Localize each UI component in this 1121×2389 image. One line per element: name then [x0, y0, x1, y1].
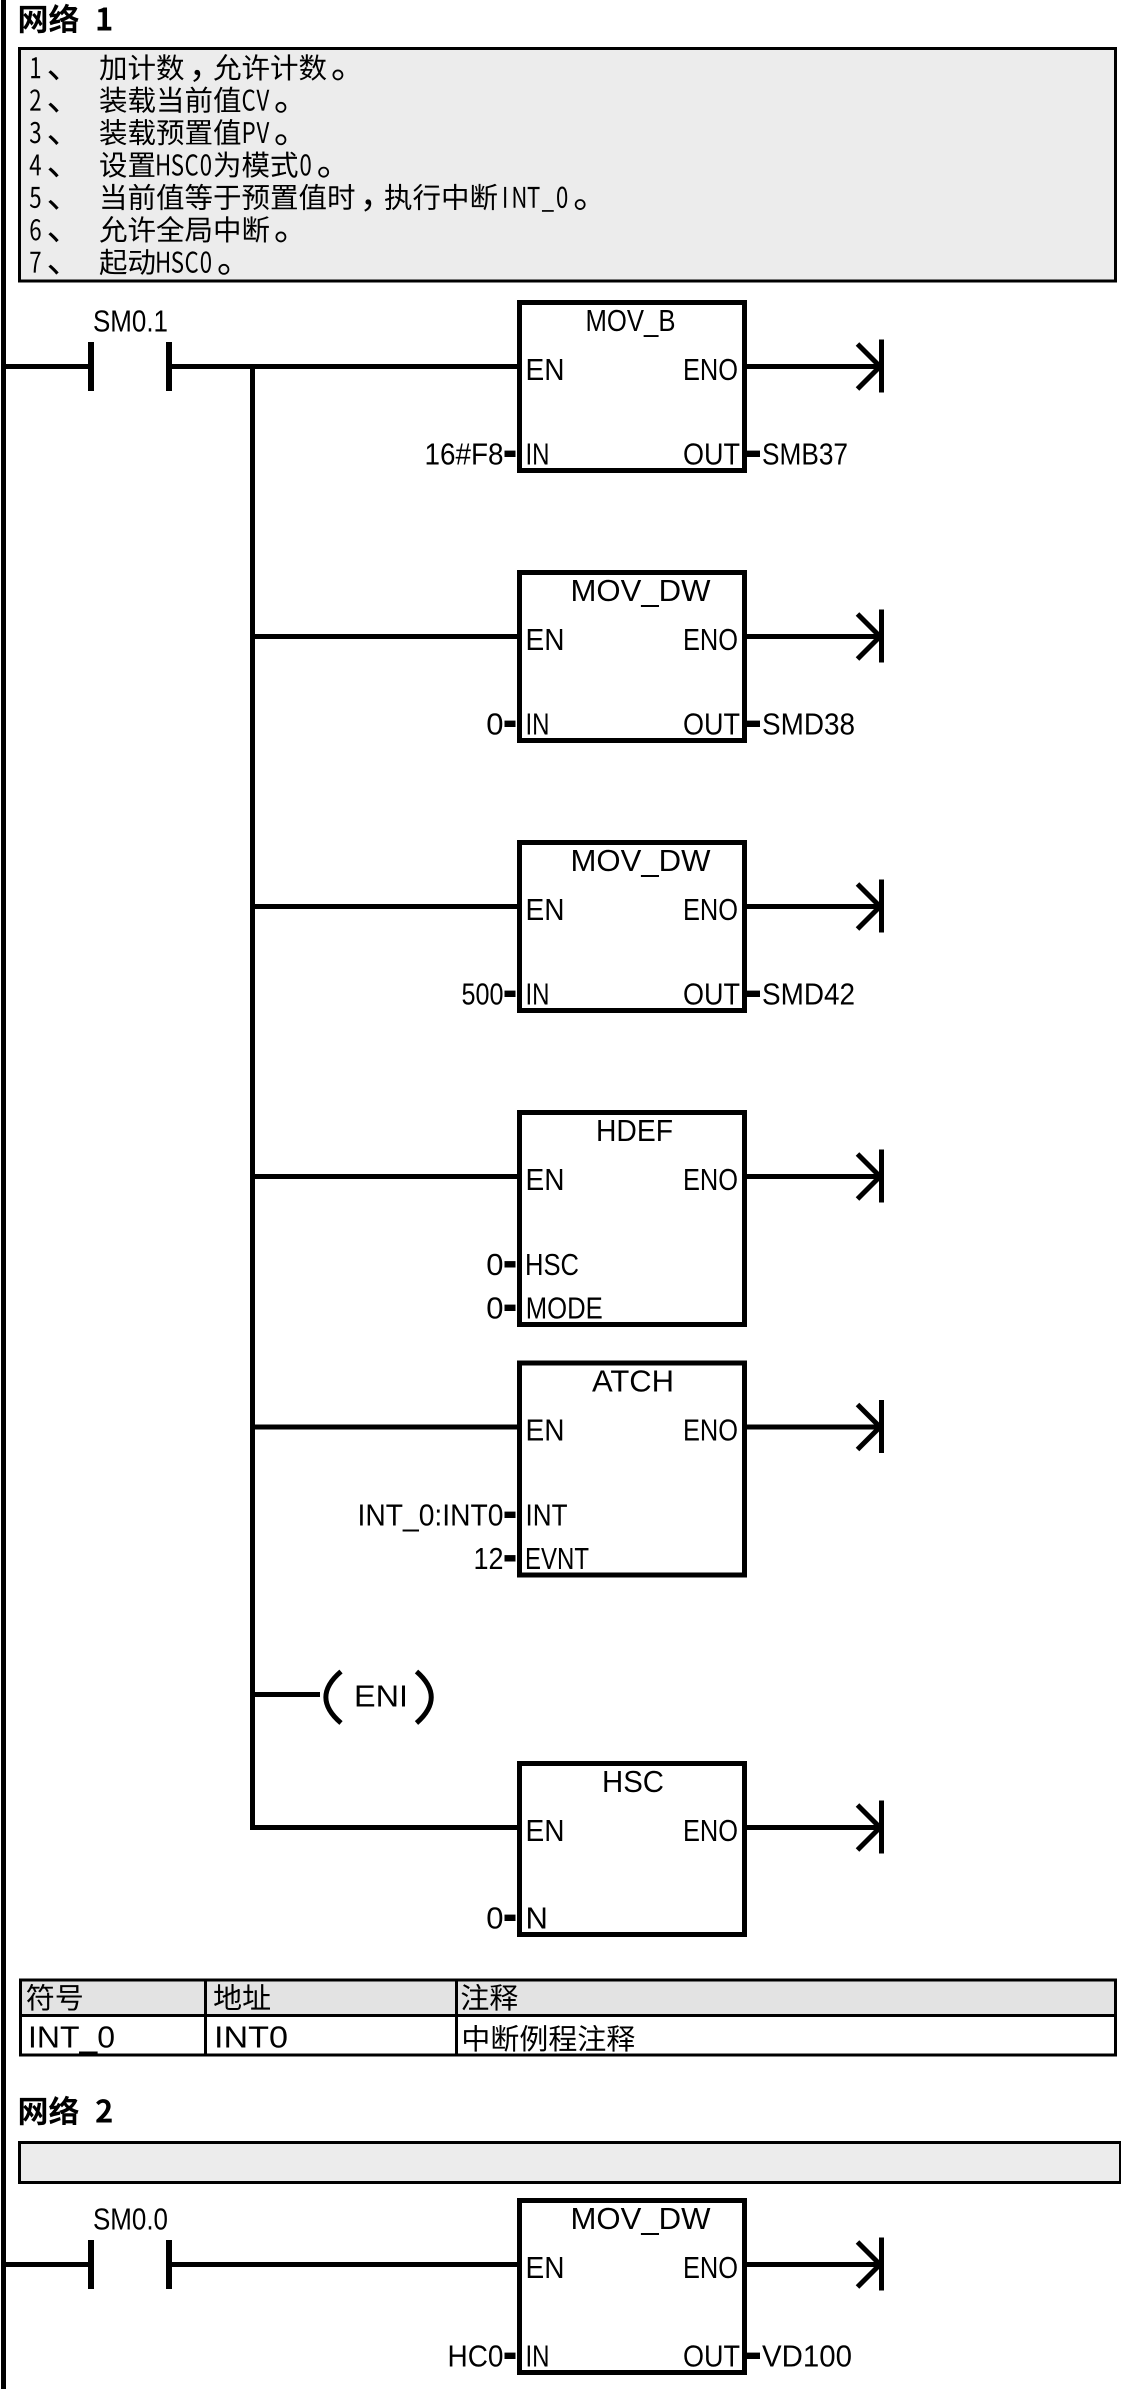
network 1 comment box — [20, 49, 1116, 282]
arrow rung HSC U6 — [879, 1801, 884, 1854]
pin tick OUT — [747, 991, 760, 997]
svg-text:ENO: ENO — [683, 622, 738, 657]
svg-text:IN: IN — [526, 2338, 550, 2373]
table header 符号 — [27, 1984, 82, 2011]
table header 地址 — [214, 1984, 270, 2010]
pin tick IN — [505, 991, 516, 997]
block HDEF U4 — [520, 1113, 745, 1325]
svg-text:OUT: OUT — [683, 436, 740, 471]
arrow rung MOV_B U1 — [879, 340, 884, 393]
wire rail to contact SM0.0 — [6, 2262, 88, 2267]
pin tick IN — [505, 2353, 516, 2359]
svg-text:ENO: ENO — [683, 1413, 738, 1448]
svg-text:HDEF: HDEF — [596, 1113, 673, 1148]
wire MOV_DW U7 ENO to arrow — [747, 2262, 879, 2267]
arrow rung HDEF U4 — [879, 1150, 884, 1203]
svg-text:EN: EN — [526, 352, 565, 387]
svg-text:INT_0:INT0: INT_0:INT0 — [358, 1497, 504, 1532]
svg-text:MOV_DW: MOV_DW — [571, 2201, 712, 2236]
wire ATCH U5 ENO to arrow — [747, 1425, 879, 1430]
table cell 中断例程注释 — [464, 2025, 635, 2052]
svg-text:MOV_DW: MOV_DW — [571, 843, 712, 878]
pin tick N — [505, 1915, 516, 1921]
block MOV_DW U7 — [520, 2201, 745, 2373]
wire MOV_DW U2 ENO to arrow — [747, 634, 879, 639]
pin tick OUT — [747, 451, 760, 457]
svg-text:MOV_DW: MOV_DW — [571, 573, 712, 608]
svg-text:0: 0 — [486, 706, 503, 741]
comment line 2 — [30, 89, 59, 112]
wire rung 5 — [255, 1425, 517, 1430]
svg-text:OUT: OUT — [683, 976, 740, 1011]
comment line 6 — [30, 219, 58, 242]
pin tick MODE — [505, 1305, 516, 1311]
pin tick IN — [505, 721, 516, 727]
block MOV_DW U2 — [520, 573, 745, 741]
svg-text:500: 500 — [462, 976, 504, 1011]
svg-text:0: 0 — [486, 1900, 503, 1935]
svg-text:12: 12 — [474, 1541, 504, 1576]
svg-text:N: N — [526, 1900, 548, 1935]
pin tick IN — [505, 451, 516, 457]
contact SM0.0 — [88, 2240, 94, 2289]
arrow rung MOV_DW U3 — [879, 880, 884, 933]
svg-text:OUT: OUT — [683, 2338, 740, 2373]
svg-text:SMD38: SMD38 — [762, 706, 855, 741]
svg-text:MODE: MODE — [526, 1290, 603, 1325]
pin tick INT — [505, 1512, 516, 1518]
arrow rung MOV_DW U7 — [879, 2238, 884, 2291]
svg-text:VD100: VD100 — [762, 2338, 852, 2373]
wire rung 3 — [255, 904, 517, 909]
left power rail — [1, 0, 6, 2389]
block HSC U6 — [520, 1764, 745, 1935]
svg-text:ENO: ENO — [683, 352, 738, 387]
svg-text:ENO: ENO — [683, 1162, 738, 1197]
svg-text:ENO: ENO — [683, 892, 738, 927]
contact SM0.1 — [88, 342, 94, 391]
wire rung 2 — [255, 634, 517, 639]
branch vertical wire — [250, 364, 255, 1830]
svg-text:0: 0 — [486, 1247, 503, 1282]
svg-text:ENI: ENI — [354, 1679, 408, 1714]
svg-text:IN: IN — [526, 976, 550, 1011]
pin tick OUT — [747, 2353, 760, 2359]
network 2 comment bar — [20, 2143, 1121, 2183]
pin tick OUT — [747, 721, 760, 727]
svg-text:INT0: INT0 — [214, 2020, 288, 2055]
table header 注释 — [462, 1984, 518, 2011]
svg-text:HSC: HSC — [525, 1247, 579, 1282]
wire MOV_B U1 ENO to arrow — [747, 364, 879, 369]
svg-text:EN: EN — [526, 622, 565, 657]
comment line 1 — [31, 57, 58, 80]
svg-text:ENO: ENO — [683, 2250, 738, 2285]
svg-text:IN: IN — [526, 436, 550, 471]
block ATCH U5 — [520, 1363, 745, 1575]
svg-text:ATCH: ATCH — [592, 1364, 674, 1399]
network 2 title — [20, 2096, 112, 2125]
svg-text:SM0.1: SM0.1 — [93, 304, 168, 339]
svg-text:INT: INT — [526, 1497, 568, 1532]
svg-text:SM0.0: SM0.0 — [93, 2202, 168, 2237]
comment line 7 — [30, 252, 58, 275]
block MOV_DW U3 — [520, 843, 745, 1011]
svg-text:EN: EN — [526, 1413, 565, 1448]
svg-text:OUT: OUT — [683, 706, 740, 741]
svg-text:ENO: ENO — [683, 1813, 738, 1848]
comment line 4 — [30, 155, 59, 178]
svg-text:HSC: HSC — [602, 1764, 664, 1799]
svg-text:EVNT: EVNT — [525, 1541, 589, 1576]
svg-text:SMB37: SMB37 — [762, 436, 848, 471]
svg-text:EN: EN — [526, 1162, 565, 1197]
pin tick HSC — [505, 1261, 516, 1267]
svg-text:INT_0: INT_0 — [28, 2020, 115, 2055]
comment line 3 — [30, 122, 59, 145]
comment line 5 — [30, 187, 59, 210]
arrow rung MOV_DW U2 — [879, 610, 884, 663]
wire rail to contact SM0.1 — [6, 364, 88, 369]
wire contact SM0.1 to MOV_B EN — [172, 364, 517, 369]
wire HSC U6 ENO to arrow — [747, 1825, 879, 1830]
wire rung 4 — [255, 1174, 517, 1179]
coil ENI — [326, 1672, 341, 1724]
wire rung 7 — [255, 1825, 517, 1830]
wire coil ENI — [255, 1692, 320, 1697]
svg-text:HC0: HC0 — [448, 2338, 504, 2373]
pin tick EVNT — [505, 1555, 516, 1561]
svg-text:IN: IN — [526, 706, 550, 741]
svg-text:EN: EN — [526, 2250, 565, 2285]
svg-text:SMD42: SMD42 — [762, 976, 855, 1011]
arrow rung ATCH U5 — [879, 1400, 884, 1453]
block MOV_B U1 — [520, 303, 745, 471]
wire MOV_DW U3 ENO to arrow — [747, 904, 879, 909]
symbol table frame — [21, 1980, 1116, 2055]
svg-text:16#F8: 16#F8 — [425, 436, 504, 471]
svg-text:EN: EN — [526, 892, 565, 927]
network 1 title — [20, 4, 111, 33]
svg-text:MOV_B: MOV_B — [586, 303, 676, 338]
wire HDEF U4 ENO to arrow — [747, 1174, 879, 1179]
svg-text:EN: EN — [526, 1813, 565, 1848]
svg-text:0: 0 — [486, 1290, 503, 1325]
wire contact SM0.0 to MOV_DW EN — [172, 2262, 517, 2267]
